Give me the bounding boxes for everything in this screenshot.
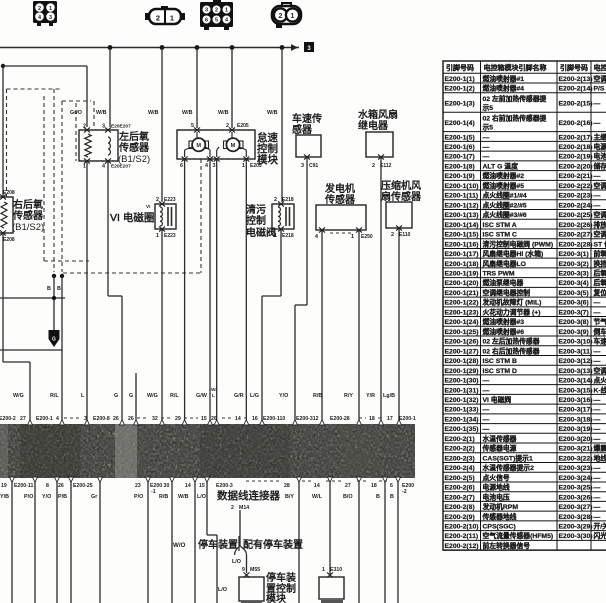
label W/O parking <box>173 536 303 551</box>
wire left edge down to E208 <box>2 66 4 197</box>
wire B/O below band x=359 <box>358 481 360 603</box>
bus wire (power feed) <box>0 42 314 52</box>
wire R/Y generator pin1 to band <box>344 230 359 421</box>
wire P/O below band x=148 <box>147 481 149 603</box>
wire W/G to E200-2 pin27 <box>13 362 30 421</box>
wire Y/R fan relay to band <box>366 157 381 421</box>
wire to DLC M14 <box>231 505 249 565</box>
connector view 6-pin <box>200 0 233 30</box>
bus junction x=282 <box>280 45 285 50</box>
wire W/B bus to ISC pin2 <box>218 48 232 129</box>
wire P/O below band x=35 <box>34 481 36 603</box>
wire W/B bus to ISC pin5 <box>182 48 197 129</box>
wire W/L ISC pin3 to band <box>211 159 218 421</box>
wire W/G VI to band <box>147 229 162 421</box>
wire G E207 pin4 to band (jog) <box>108 161 122 421</box>
wire Y/O speed sensor to band (jog) <box>279 157 307 421</box>
ECU pin arrows top <box>27 420 401 425</box>
label O2 sensor right <box>12 198 44 233</box>
ground G <box>49 330 60 347</box>
wire Y/B below band x=12 <box>11 481 13 603</box>
radiator fan relay E112 <box>358 108 398 169</box>
label ISC module <box>257 131 278 166</box>
connector labels below band <box>0 481 414 500</box>
wire Gr/O to O2 sensor pin2 <box>70 66 87 127</box>
connector view 2-pin oval A <box>145 6 185 24</box>
wire W/B bus to purge solenoid <box>267 48 282 203</box>
wire W/B bus to O2 sensor pin3 <box>96 48 110 128</box>
wire W/B bus to VI solenoid <box>148 48 162 203</box>
label purge solenoid <box>246 203 276 239</box>
oxygen sensor E208 (rear right) <box>0 190 15 243</box>
wire B/Y below band x=299 <box>298 481 300 603</box>
wire P/B below band x=71 <box>70 481 72 603</box>
wire L E207 pin1 to band <box>81 161 87 421</box>
compressor fan sensor E110 <box>381 179 421 238</box>
bus junction x=197 <box>195 45 200 50</box>
wire branch node left <box>1 64 87 68</box>
wire splice to E200-1 pin4 <box>0 276 62 421</box>
wire E208 down <box>3 233 30 362</box>
wire R/L ISC pin6 to band <box>170 159 185 421</box>
wire B below band x=398 <box>397 481 399 603</box>
module E310 <box>241 567 344 603</box>
wire R/B below band x=172 <box>171 481 173 603</box>
parking control module M55 <box>239 555 296 603</box>
label O2 sensor left <box>118 130 150 165</box>
wire L/G purge to band (jog) <box>250 229 281 421</box>
bus junction x=232 <box>230 45 235 50</box>
vehicle speed sensor C91 <box>292 112 322 169</box>
harness dashed outline right <box>63 159 201 273</box>
splice node B/B <box>47 274 64 292</box>
ECU connector band <box>0 424 415 478</box>
connector view 4-pin <box>33 1 57 26</box>
wire W/L to E310 <box>329 481 331 574</box>
connector labels above band <box>0 416 416 422</box>
idle speed control module E205 <box>177 123 262 169</box>
harness dashed outline left <box>7 89 95 272</box>
wire B below band x=385 <box>384 481 386 603</box>
wire G short stub to band <box>129 373 136 421</box>
wire L/O below band jog <box>207 481 227 603</box>
oxygen sensor E207 (rear left) <box>79 124 131 170</box>
purge control solenoid E218 <box>272 197 294 239</box>
pin function table <box>443 61 606 550</box>
label data link connector <box>217 489 280 502</box>
wire R/B generator pin4 to band <box>313 230 322 421</box>
ECU pin arrows bottom <box>9 477 400 482</box>
label VI solenoid <box>110 211 154 224</box>
wire G/R ISC pin1 to band <box>234 159 246 421</box>
wire W/B below band x=195 <box>194 481 196 603</box>
VI solenoid E223 <box>146 197 176 239</box>
generator sensor E250 <box>315 182 373 240</box>
wire splice to ground <box>0 276 65 330</box>
bus junction x=162 <box>160 45 165 50</box>
connector view 2-pin oval B <box>272 3 301 28</box>
wire Y/O below band x=57 <box>56 481 58 603</box>
wire Lg/B compressor to band <box>383 228 399 421</box>
bus junction x=110 <box>108 45 113 50</box>
wire Gr below band x=100 <box>99 481 101 603</box>
wire G/W ISC pin4 to band <box>196 159 210 421</box>
